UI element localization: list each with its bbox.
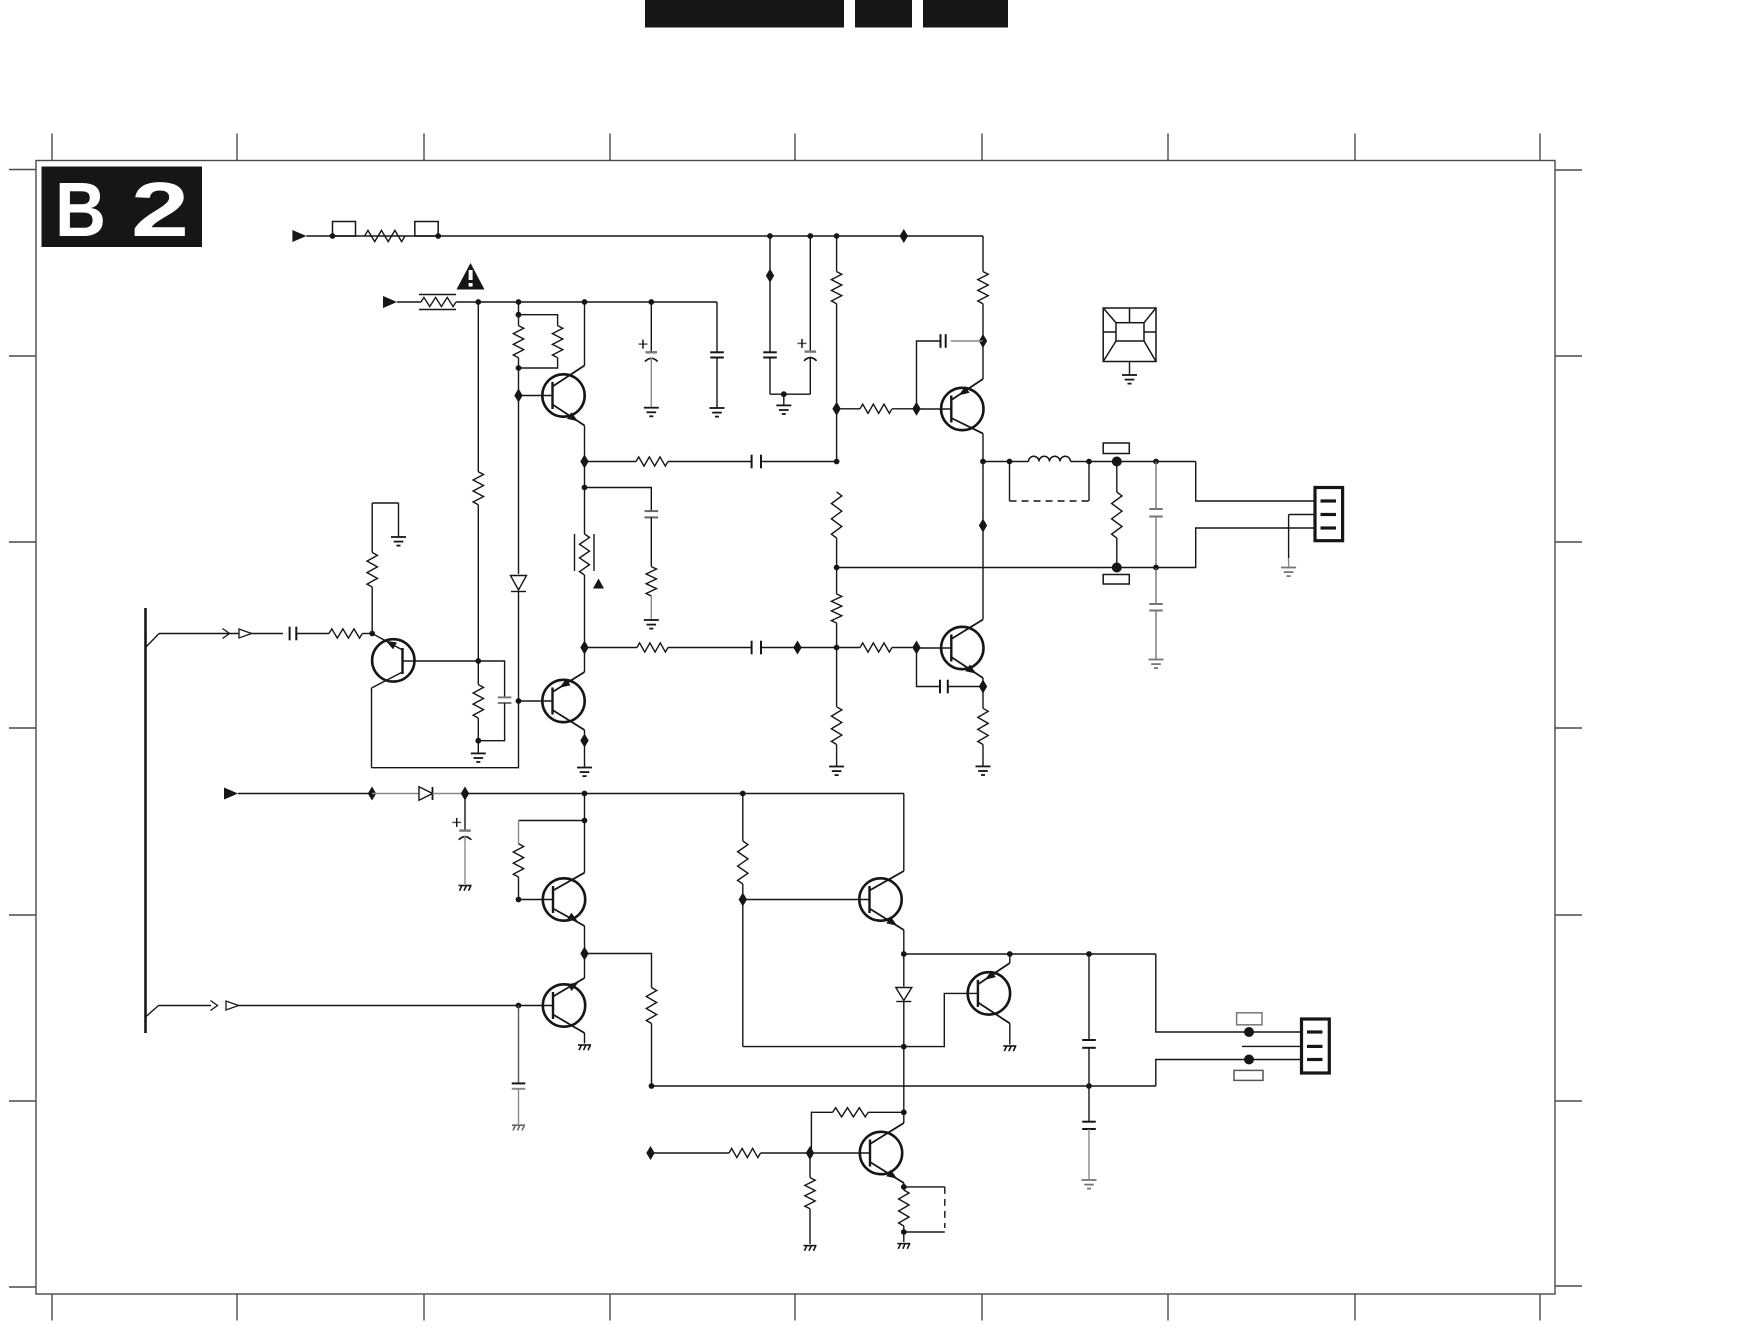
- wire C3 right lead: [951, 340, 983, 342]
- ground G6: [976, 765, 991, 767]
- test point diamond 983: [979, 519, 987, 533]
- Q3 collector riser: [982, 462, 984, 620]
- Q9 collector: [978, 1002, 1010, 1023]
- resistor R15: [860, 643, 892, 652]
- input arrow row2: [383, 296, 397, 308]
- connector CN1: [1315, 488, 1343, 541]
- wire R10 bottom: [836, 538, 838, 568]
- node R19 bottom: [475, 738, 481, 744]
- node Q6 base: [516, 897, 522, 903]
- wire row3 main: [465, 793, 904, 795]
- wire C15 bottom: [518, 1089, 520, 1124]
- wire R23 right: [761, 1152, 811, 1154]
- Q6 emitter: [553, 909, 585, 927]
- resistor R6: [473, 472, 483, 505]
- wire cap branch 810: [809, 236, 811, 352]
- node out-d: [1153, 459, 1159, 465]
- test point big dot out3: [1244, 1027, 1254, 1037]
- svg-text:2: 2: [131, 167, 189, 253]
- bus tap upper: [146, 634, 160, 648]
- link box L7: [1234, 1070, 1263, 1080]
- diode D1: [511, 576, 527, 591]
- resistor R3: [860, 404, 892, 413]
- wire C3 left lead and down: [917, 341, 941, 409]
- wire 518 jog: [518, 302, 520, 315]
- Q5 collector wire: [403, 660, 479, 662]
- wire R8 bottom loop: [519, 358, 558, 368]
- node Q7 base: [516, 1003, 522, 1009]
- wire 651 branch: [650, 302, 652, 352]
- link box L1: [333, 222, 356, 237]
- wire C8 right: [761, 647, 837, 649]
- node diamond Q2 collector: [580, 641, 588, 655]
- rake ground G13: [578, 1044, 591, 1046]
- node diamond Q3 base: [912, 641, 920, 655]
- wire out2 row: [904, 953, 1156, 955]
- node diamond Q4 emitter: [979, 334, 987, 348]
- Q8 collector: [870, 871, 904, 891]
- wire pin1 feed: [1196, 462, 1315, 502]
- node diamond Q1 emitter: [580, 455, 588, 469]
- node R26 bottom: [901, 1229, 907, 1235]
- node long-line right: [1086, 1083, 1092, 1089]
- wire R7 bottom lead: [518, 358, 520, 368]
- resistor R2: [831, 272, 841, 304]
- resistor R16: [978, 708, 988, 744]
- test point big dot out4: [1244, 1055, 1254, 1065]
- link box L6: [1237, 1013, 1262, 1025]
- wire row3 a: [238, 793, 372, 795]
- Q2 base wire: [519, 700, 553, 702]
- node row3-c: [582, 791, 588, 797]
- Q10 base wire: [810, 1152, 870, 1154]
- wire C1 bottom: [769, 358, 771, 395]
- shield left leg: [1009, 462, 1011, 502]
- Q1 emitter: [553, 405, 585, 426]
- resistor R13: [646, 567, 656, 596]
- input arrow row1: [292, 230, 306, 242]
- wire R15 right: [892, 647, 917, 649]
- ground G2: [644, 407, 659, 409]
- Q7 collector: [553, 1015, 585, 1034]
- resistor R12: [831, 707, 841, 745]
- rake ground G15: [1003, 1045, 1016, 1047]
- inductor L3: [1029, 456, 1071, 461]
- node row2-c: [582, 299, 588, 305]
- rake ground G14 grey: [512, 1124, 525, 1126]
- warning triangle small: [593, 579, 604, 589]
- resistor R14: [637, 643, 668, 652]
- wire C14 stem: [464, 794, 466, 831]
- capacitor C4 electrolytic: [646, 351, 658, 353]
- wire C16 bottom: [1088, 1048, 1090, 1086]
- node out2-a: [901, 951, 907, 957]
- transistor Q10: [860, 1132, 902, 1174]
- base resistor R25: [809, 1153, 811, 1178]
- redaction bar 3: [923, 0, 1008, 28]
- Q8 base wire: [743, 899, 870, 901]
- Q1 base wire: [519, 395, 553, 397]
- node D3 bottom: [901, 1044, 907, 1050]
- wire diode D1 upper: [518, 396, 520, 575]
- wire C2 bottom: [809, 357, 811, 394]
- wire R10 link: [836, 409, 838, 462]
- resistor R21: [646, 988, 656, 1024]
- bus tap lower: [146, 1006, 159, 1018]
- wire C15 stem: [518, 1006, 520, 1084]
- wire emitter row: [585, 954, 652, 988]
- feedback loop bottom: [372, 701, 519, 768]
- wire input row: [159, 633, 283, 635]
- wire R17 link: [1116, 462, 1118, 493]
- wire out2 corner: [1156, 954, 1302, 1032]
- Q2 emitter drop: [584, 730, 586, 741]
- wire row1: [306, 235, 438, 237]
- node diamond Q10 base: [806, 1146, 814, 1160]
- Q7 collector gnd: [584, 1033, 586, 1044]
- Q6 emitter drop: [584, 926, 586, 954]
- shield right leg: [1088, 462, 1090, 502]
- wire R14 lead: [585, 647, 638, 649]
- node diamond Q1 base: [514, 389, 522, 403]
- wire row1 main: [438, 235, 983, 237]
- wire to R20: [519, 820, 585, 822]
- test point diamond row3-b: [461, 787, 469, 801]
- wire R20 top lead: [518, 821, 520, 844]
- wire C16 top lead: [1088, 954, 1090, 1040]
- filter FL1: [1103, 308, 1156, 362]
- node diamond R3-left: [832, 402, 840, 416]
- resistor R27 above Q5: [371, 587, 373, 634]
- wire row3 c: [433, 793, 466, 795]
- transistor Q1: [542, 374, 584, 416]
- ground G7 grey: [1149, 659, 1164, 661]
- wire Q2 emitter gnd: [584, 741, 586, 768]
- wire 478 lower: [477, 505, 479, 661]
- wire out row: [983, 461, 1029, 463]
- wire C10 mid: [1155, 517, 1157, 568]
- Q4 base wire: [917, 408, 952, 410]
- node row1-a: [330, 233, 336, 239]
- wire R3 right lead: [892, 408, 917, 410]
- Q9 emitter riser: [1009, 954, 1011, 963]
- chevron input: [223, 629, 230, 639]
- Q6 base wire: [519, 899, 554, 901]
- wire R11 leads: [836, 568, 838, 595]
- transistor Q9: [968, 972, 1010, 1014]
- chevron row4: [211, 1001, 218, 1011]
- wire 584 row3 drop: [584, 794, 586, 873]
- dashed component: [904, 1186, 945, 1188]
- wire cap pair bottom: [770, 393, 810, 395]
- Q5 emitter diag: [372, 672, 403, 688]
- node row3-d: [740, 791, 746, 797]
- Q2 collector: [553, 672, 585, 692]
- wire row4 lead: [159, 1005, 212, 1007]
- Q10 emitter lead: [903, 1183, 905, 1187]
- capacitor C15: [512, 1082, 526, 1084]
- capacitor C8: [751, 641, 753, 655]
- node row2-b: [516, 299, 522, 305]
- Q6 collector: [553, 873, 585, 891]
- ground G11: [577, 767, 592, 769]
- test point diamond 770: [766, 269, 774, 283]
- wire R19 bottom lead: [477, 718, 479, 741]
- long line: [652, 1085, 1156, 1087]
- Q3 emitter lead: [982, 678, 984, 687]
- wire R19 top lead: [477, 661, 479, 685]
- node row2-d: [648, 299, 654, 305]
- node 836 bottom: [834, 645, 840, 651]
- test point diamond row647: [793, 641, 801, 655]
- capacitor C1: [763, 351, 777, 353]
- test point big dot out: [1112, 457, 1122, 467]
- FL1 ground stem: [1129, 362, 1131, 376]
- wire R26 gnd: [903, 1232, 905, 1242]
- Q2 collector riser: [584, 648, 586, 673]
- bottom line to connector: [837, 528, 1315, 568]
- node 584 mid: [582, 485, 588, 491]
- base loop left leg: [742, 900, 744, 1047]
- wire R16 gnd lead: [982, 745, 984, 767]
- pin stub CN2: [1242, 1045, 1302, 1047]
- Q3 base wire: [917, 647, 952, 649]
- ground G9: [1122, 374, 1137, 376]
- ground G3: [710, 407, 725, 409]
- signal bus: [144, 608, 147, 1033]
- link box L5: [1103, 575, 1129, 585]
- Q1 collector: [553, 366, 585, 387]
- node out2-c: [1086, 951, 1092, 957]
- connector CN2: [1302, 1019, 1330, 1073]
- wire to C8: [668, 647, 752, 649]
- open arrow row4: [226, 1001, 239, 1010]
- wire R4 to node: [982, 304, 984, 341]
- capacitor C5: [710, 351, 724, 353]
- wire R15 lead: [837, 647, 860, 649]
- wire row2 lead: [397, 301, 421, 303]
- node pair top: [516, 312, 522, 318]
- diode D3 bottom lead: [903, 1002, 905, 1047]
- node row1-b: [435, 233, 441, 239]
- node Q2 base: [516, 698, 522, 704]
- wire row1 corner to R4: [982, 236, 984, 272]
- transistor Q7: [543, 984, 585, 1026]
- capacitor C7: [645, 510, 659, 512]
- Q4 collector: [951, 418, 983, 434]
- rake ground G12: [459, 885, 472, 887]
- node out-b: [1007, 459, 1013, 465]
- resistor R18: [329, 629, 362, 638]
- wire 836 to R12: [836, 648, 838, 707]
- Q9 emitter: [978, 963, 1010, 984]
- wire thermistor top lead: [584, 488, 586, 535]
- resistor R22: [738, 841, 748, 884]
- svg-text:B: B: [55, 167, 106, 253]
- diode D3 top lead: [903, 954, 905, 987]
- wire to Q1 base diamond: [518, 368, 520, 396]
- wire gnd stem: [783, 394, 785, 405]
- transistor Q3: [941, 627, 983, 669]
- zone label B2: [42, 167, 203, 248]
- capacitor C9: [939, 680, 941, 694]
- Q3 emitter: [951, 657, 983, 678]
- open arrow input: [239, 629, 252, 638]
- node out-e: [1153, 565, 1159, 571]
- Q10 collector riser: [903, 1047, 905, 1123]
- node diamond Q6 emitter: [580, 947, 588, 961]
- wire C12 to R18: [296, 633, 329, 635]
- wire R9 lead: [585, 461, 637, 463]
- pin2 gnd drop: [1288, 515, 1290, 559]
- Q7 emitter: [553, 978, 585, 997]
- transistor Q8: [859, 878, 901, 920]
- resistor R4: [978, 272, 988, 304]
- wire R7 top lead: [518, 315, 520, 326]
- test point diamond row1: [900, 229, 908, 243]
- resistor R23: [729, 1148, 761, 1157]
- wire row3 b: [372, 793, 419, 795]
- wire R8 top loop: [519, 315, 558, 326]
- transistor Q5: [372, 639, 414, 681]
- node Q5 base: [369, 631, 375, 637]
- wire out3 corner: [1156, 1060, 1302, 1087]
- wire row4 main: [239, 1005, 554, 1007]
- wire R23 lead: [651, 1152, 730, 1154]
- wire R22 bottom: [742, 884, 744, 900]
- ground G8 grey: [1281, 567, 1296, 569]
- base loop bottom: [743, 1046, 904, 1048]
- capacitor C2 electrolytic: [805, 350, 817, 352]
- Q10 collector: [870, 1123, 904, 1144]
- capacitor C14 electrolytic: [459, 829, 471, 831]
- capacitor C12: [289, 627, 291, 641]
- Q1 collector riser: [584, 302, 586, 366]
- emitter resistor R26: [903, 1187, 905, 1190]
- resistor R7: [513, 326, 523, 358]
- wire 584 to 651 branch: [585, 462, 652, 512]
- input arrow row3: [224, 788, 238, 800]
- node diamond Q8 base: [739, 893, 747, 907]
- ground G10: [477, 741, 479, 754]
- wire 836 to diamond: [836, 304, 838, 409]
- capacitor C11: [1149, 603, 1163, 605]
- Q8 emitter: [870, 909, 904, 931]
- test point diamond row3-a: [368, 787, 376, 801]
- node row1-d: [807, 233, 813, 239]
- transistor Q4: [941, 388, 983, 430]
- resistor R9: [636, 457, 668, 466]
- ground G5: [644, 619, 659, 621]
- resistor R11: [831, 594, 841, 623]
- Q8 collector riser: [903, 794, 905, 872]
- node 584-820: [582, 818, 588, 824]
- wire thermistor bottom lead: [584, 575, 586, 648]
- feedback resistor R24: [868, 1111, 904, 1113]
- wire C14 bottom: [464, 836, 466, 884]
- wire out row 2: [1071, 461, 1196, 463]
- wire 742 drop: [742, 794, 744, 842]
- rake ground G18: [897, 1243, 910, 1245]
- link box L4: [1103, 443, 1129, 454]
- wire R13 gnd lead: [650, 596, 652, 620]
- wire 478 upper: [477, 302, 479, 472]
- Q2 emitter: [553, 710, 585, 730]
- wire cap branch 770: [769, 236, 771, 352]
- wire C4 bottom: [650, 358, 652, 408]
- Q7 emitter riser: [584, 954, 586, 979]
- capacitor C13 loop: [478, 661, 504, 697]
- capacitor C10: [1149, 508, 1163, 510]
- node 836 mid: [834, 459, 840, 465]
- resistor R19: [473, 685, 483, 718]
- redaction bar 1: [645, 0, 844, 28]
- wire C6 to 836: [761, 461, 837, 463]
- warning triangle: [457, 263, 485, 290]
- node out2-b: [1007, 951, 1013, 957]
- wire 836 upper: [836, 236, 838, 272]
- transistor Q6: [543, 878, 585, 920]
- node row1-e: [834, 233, 840, 239]
- wire R27 hook: [372, 502, 398, 504]
- diode D2: [419, 787, 433, 800]
- fusible resistor R5: [421, 297, 456, 306]
- wire C5 bottom: [716, 358, 718, 409]
- node diamond Q3 emitter: [979, 680, 987, 694]
- capacitor C17: [1082, 1121, 1096, 1123]
- node out-a: [980, 459, 986, 465]
- node row1-c: [767, 233, 773, 239]
- Q5 base diag: [372, 634, 402, 651]
- node Q10 emitter: [901, 1184, 907, 1190]
- diode D3: [896, 988, 912, 1001]
- node Q10 collector: [901, 1109, 907, 1115]
- Q4 emitter riser: [982, 341, 984, 379]
- node out-c: [1086, 459, 1092, 465]
- Q9 collector gnd lead: [1009, 1023, 1011, 1044]
- resistor R17: [1112, 492, 1122, 538]
- wire C10 branch upper: [1155, 462, 1157, 510]
- wire 717 branch: [716, 302, 718, 352]
- ground G4: [829, 766, 844, 768]
- ground G19: [391, 536, 406, 538]
- node diamond Q2 emitter: [580, 734, 588, 748]
- Q10 emitter: [870, 1162, 904, 1183]
- resistor R1: [365, 230, 405, 241]
- wire Q9 base loop: [904, 993, 978, 1046]
- wire R16 top lead: [982, 687, 984, 709]
- wire R3 left lead: [837, 408, 860, 410]
- ground G16 grey: [1082, 1179, 1097, 1181]
- Q8 emitter drop: [903, 930, 905, 954]
- Q3 collector: [951, 620, 983, 640]
- transistor Q2: [542, 680, 584, 722]
- redaction bar 2: [855, 0, 912, 28]
- node long-line left: [649, 1083, 655, 1089]
- test point big dot out2: [1112, 563, 1122, 573]
- wire R20 bottom lead: [518, 877, 520, 900]
- Q4 emitter: [951, 379, 983, 400]
- wire C17 leads: [1088, 1086, 1090, 1122]
- wire C9 left leads: [917, 648, 941, 687]
- node cap pair: [781, 391, 787, 397]
- wire R12 gnd lead: [836, 745, 838, 767]
- node R19 top: [475, 658, 481, 664]
- wire C11 leads: [1155, 568, 1157, 605]
- wire R21 bottom: [651, 1024, 653, 1087]
- link box L2: [415, 222, 438, 237]
- wire R17 bottom: [1116, 538, 1118, 568]
